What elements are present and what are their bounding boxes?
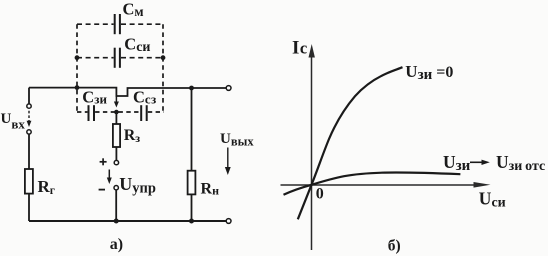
terminal output top [226, 86, 231, 91]
arrow Uупр [108, 170, 110, 179]
capacitor Cм [115, 14, 120, 34]
minus sign [99, 189, 105, 191]
node junction left on Cси rail [75, 55, 80, 60]
capacitor Cсз [141, 105, 147, 121]
wire bottom rail [29, 220, 226, 222]
capacitor Cзи [89, 105, 95, 121]
wire dashed middle rail right of Cси [121, 57, 163, 59]
terminal output bottom [226, 219, 231, 224]
arrow Uвых [227, 148, 229, 169]
terminal minus of Uупр [114, 186, 118, 190]
wire dashed middle rail left of Cси [77, 57, 114, 59]
node junction bottom rail / Uупр branch [114, 219, 119, 224]
wire gate rail with channel dip [29, 88, 226, 96]
curve Uзи approaching Uзи отс [284, 172, 461, 194]
plus sign [100, 158, 107, 165]
svg-text:а): а) [110, 236, 123, 253]
capacitor Cси [115, 48, 120, 68]
resistor Rн [188, 171, 196, 195]
curve Uзи=0 [298, 67, 403, 219]
node junction gate rail / left dashed vertical [75, 85, 80, 90]
arrow Uвх (dashed) [28, 111, 30, 122]
wire Rн to bottom rail [191, 194, 193, 221]
axis Uси (horizontal) [281, 184, 482, 186]
terminal input bottom [27, 130, 31, 134]
wire dashed top rail right of Cм [121, 23, 163, 25]
terminal input top [27, 104, 31, 108]
svg-text:Uвых: Uвых [220, 131, 254, 149]
wire Uупр terminal to bottom rail [115, 190, 117, 221]
resistor Rз [115, 112, 117, 124]
axis Ic (vertical) [311, 55, 313, 250]
wire dashed bottom rail segment 1 [77, 111, 87, 113]
wire dashed top rail left of Cм [77, 23, 114, 25]
node junction gate rail / drain branch [189, 86, 194, 91]
svg-text:0: 0 [316, 185, 324, 202]
svg-text:Rн: Rн [201, 180, 220, 197]
resistor Rг [25, 169, 33, 194]
wire input bottom to Rг [28, 134, 30, 169]
arrow channel current (down from dip) [115, 97, 117, 103]
wire input branch top [28, 88, 30, 104]
wire dashed bottom rail segment 3 [148, 111, 164, 113]
node junction bottom rail / Rн branch [189, 219, 194, 224]
wire dashed left vertical of capacitance box [76, 24, 78, 112]
wire dashed right vertical of capacitance box [162, 24, 164, 112]
terminal plus of Uупр [114, 160, 118, 164]
node junction channel / bottom rail [114, 110, 119, 115]
wire drain branch [191, 88, 193, 171]
svg-text:б): б) [388, 238, 401, 255]
node junction right on Cси rail [161, 55, 166, 60]
wire Rг to bottom rail [28, 194, 30, 221]
svg-text:Ic: Ic [292, 37, 307, 58]
wire dashed bottom rail segment 2 [95, 111, 140, 113]
